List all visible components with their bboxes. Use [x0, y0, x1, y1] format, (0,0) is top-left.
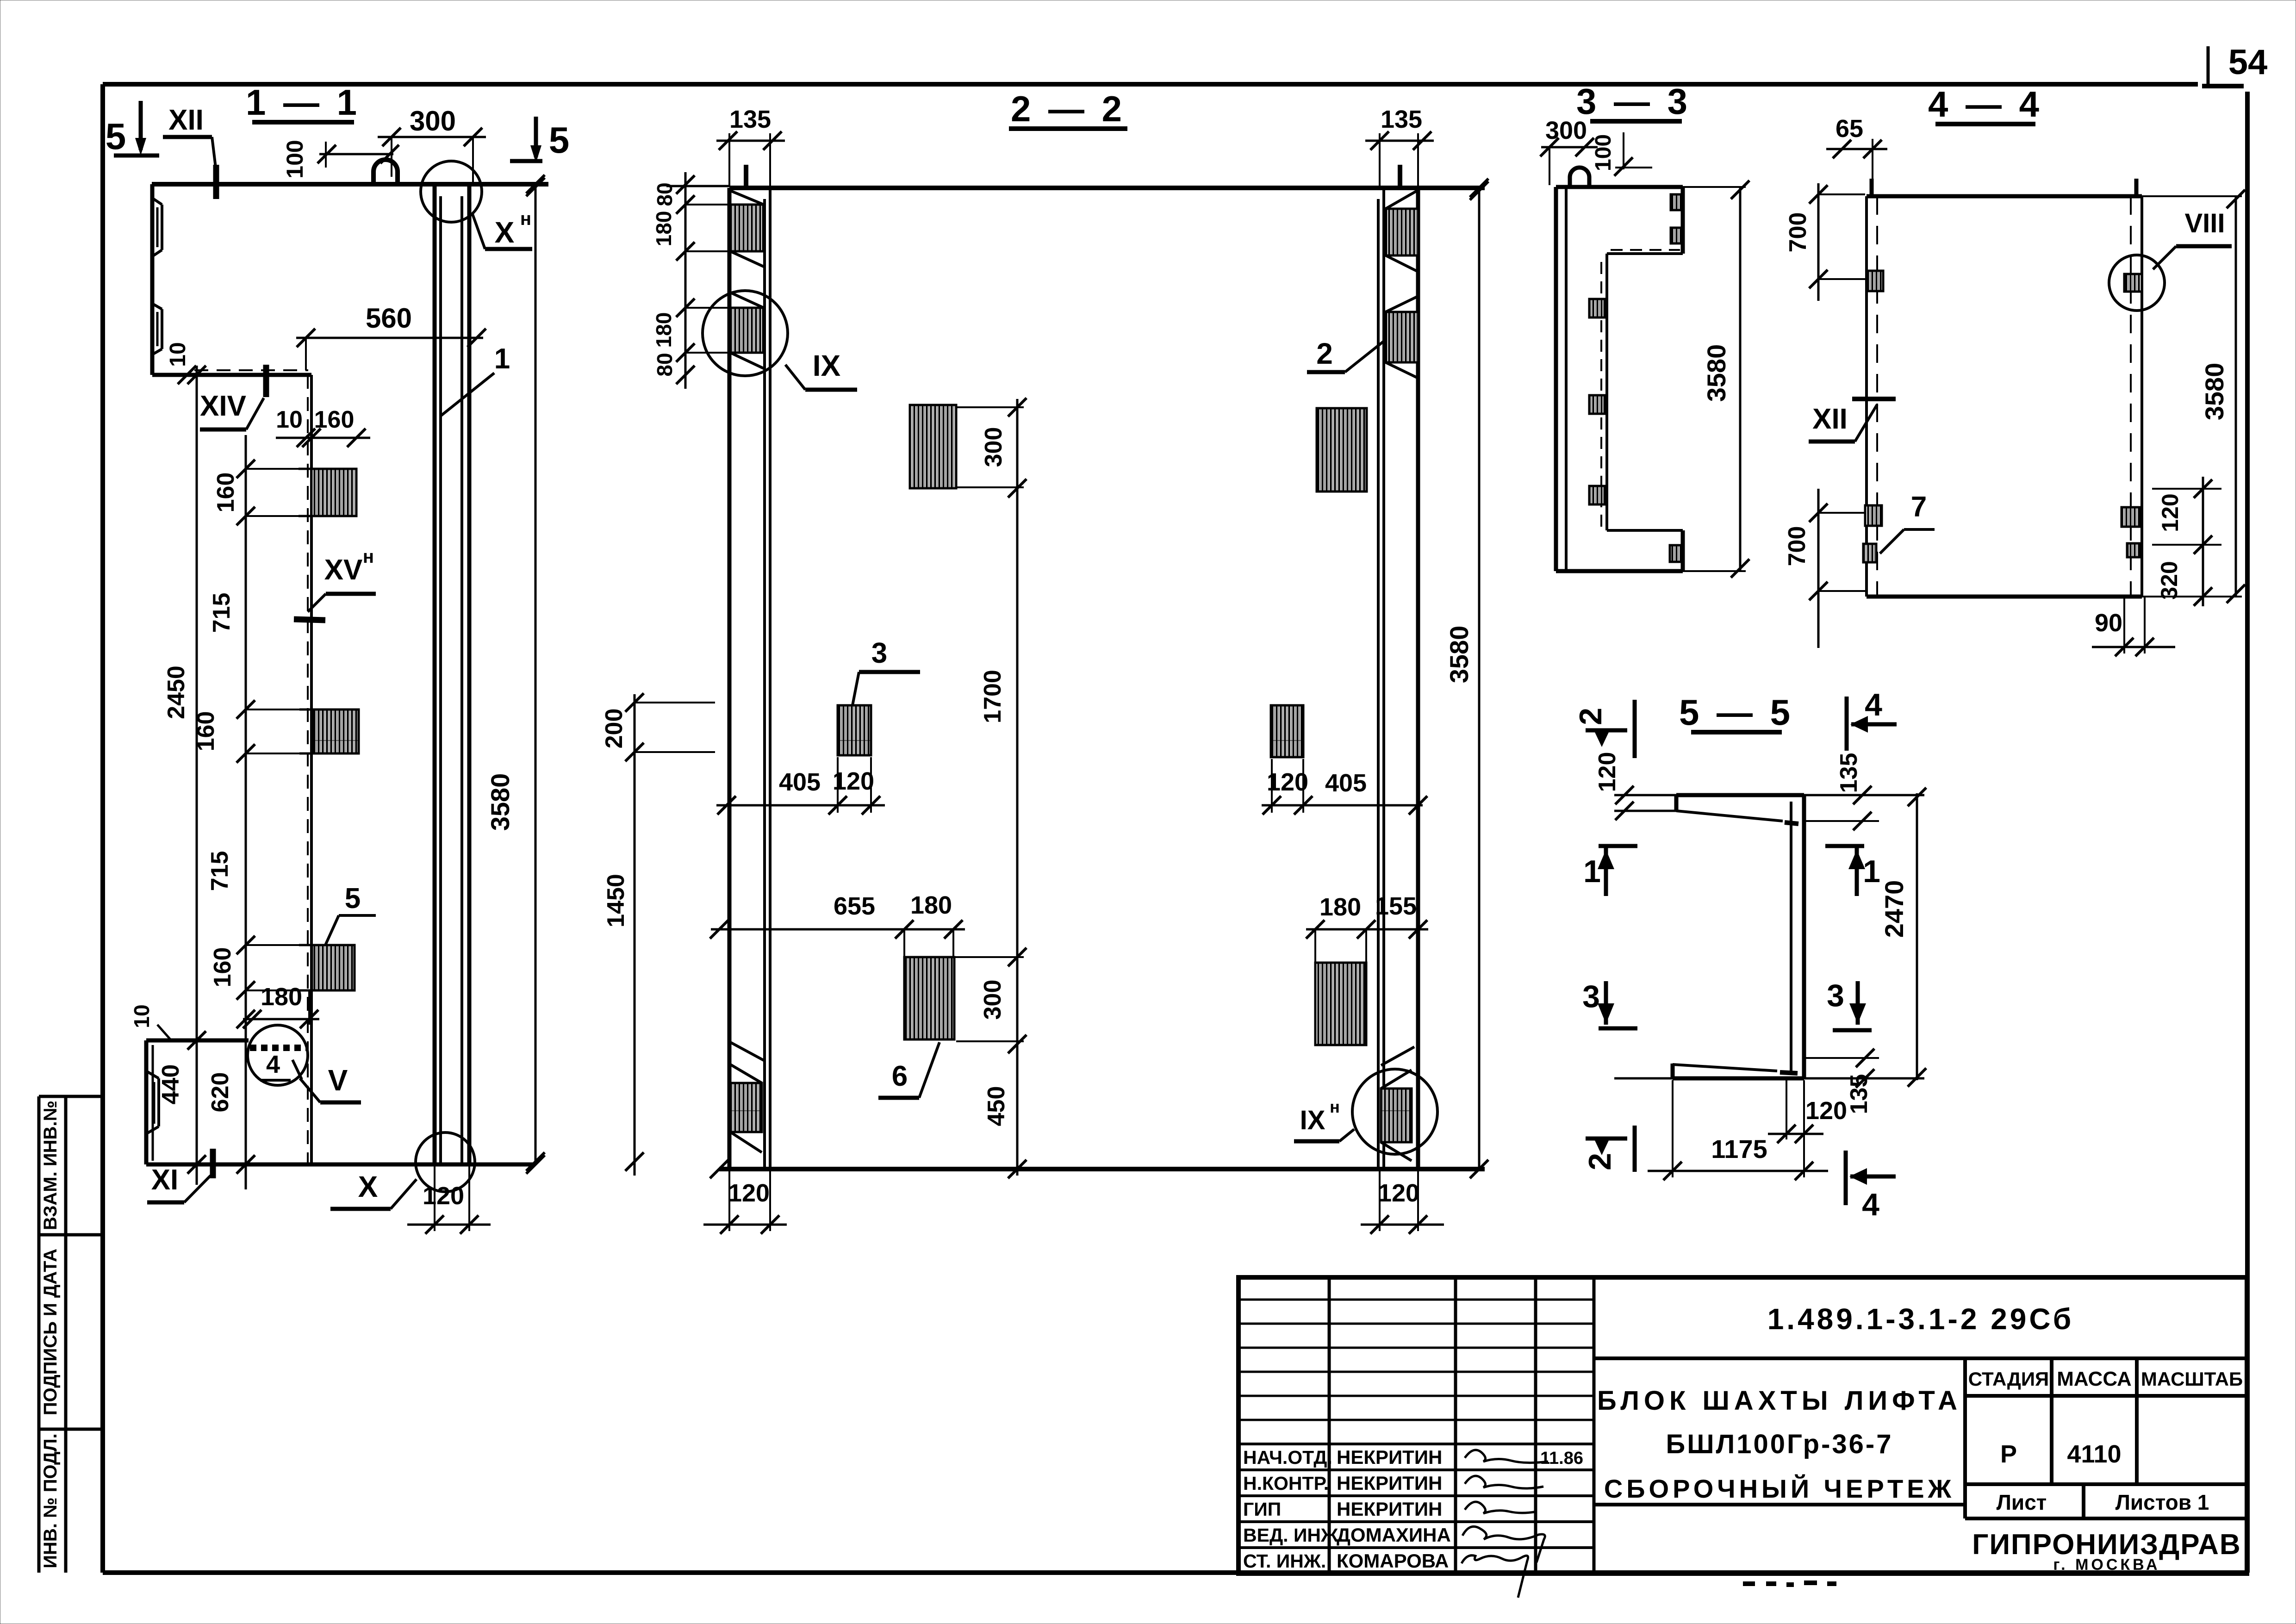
page number tick [2207, 46, 2210, 86]
svg-text:120: 120 [2157, 493, 2183, 532]
svg-text:180: 180 [1319, 893, 1361, 921]
left strip hatch block bottom [730, 1083, 762, 1132]
connector left upper [1867, 271, 1883, 291]
svg-text:120: 120 [1805, 1097, 1847, 1125]
svg-text:54: 54 [2228, 43, 2268, 82]
svg-text:1 — 1: 1 — 1 [246, 82, 361, 123]
right strip hatch block 2 [1386, 312, 1418, 362]
svg-text:н: н [520, 209, 531, 229]
svg-text:1: 1 [494, 343, 510, 375]
middle key block M1 [910, 405, 956, 488]
svg-text:120: 120 [1267, 768, 1308, 796]
svg-text:11.86: 11.86 [1540, 1449, 1583, 1468]
svg-text:120: 120 [833, 767, 874, 795]
svg-text:СБОРОЧНЫЙ ЧЕРТЕЖ: СБОРОЧНЫЙ ЧЕРТЕЖ [1604, 1474, 1955, 1503]
svg-text:405: 405 [779, 768, 821, 796]
C-profile outline (3-3) [1554, 187, 1558, 571]
section marker 5 right [534, 117, 538, 157]
svg-text:ДОМАХИНА: ДОМАХИНА [1337, 1524, 1451, 1546]
svg-text:7: 7 [1911, 491, 1927, 523]
lifting loop [373, 160, 398, 184]
svg-text:200: 200 [601, 709, 628, 749]
title block signature rows [1238, 1444, 1594, 1548]
svg-text:X: X [358, 1170, 378, 1203]
svg-text:1.489.1-3.1-2 29Сб: 1.489.1-3.1-2 29Сб [1767, 1302, 2074, 1336]
svg-text:80: 80 [653, 182, 677, 206]
svg-text:90: 90 [2095, 609, 2122, 637]
svg-text:405: 405 [1325, 769, 1367, 797]
connectors right bottom [2122, 507, 2140, 527]
lower wall line [310, 375, 313, 1164]
rebar stub right [1398, 165, 1402, 188]
svg-text:4 — 4: 4 — 4 [1928, 84, 2043, 124]
svg-text:700: 700 [1784, 526, 1811, 566]
svg-text:1450: 1450 [603, 874, 629, 927]
svg-text:БЛОК ШАХТЫ ЛИФТА: БЛОК ШАХТЫ ЛИФТА [1597, 1386, 1962, 1416]
svg-text:3: 3 [871, 637, 887, 669]
svg-text:300: 300 [1545, 117, 1587, 144]
svg-text:5: 5 [106, 116, 126, 157]
svg-text:Листов 1: Листов 1 [2116, 1490, 2209, 1514]
detail circle X-n [421, 161, 482, 222]
left strip (4-4) [1865, 196, 1868, 597]
svg-text:5: 5 [345, 883, 361, 915]
section 1-1 bottom edge [146, 1163, 533, 1167]
svg-text:180: 180 [910, 891, 952, 919]
svg-text:Р: Р [2000, 1440, 2017, 1468]
signatures [1465, 1450, 1548, 1463]
svg-text:1: 1 [1863, 854, 1880, 889]
svg-text:2450: 2450 [163, 666, 190, 719]
svg-text:XII: XII [1812, 403, 1848, 435]
svg-text:IX: IX [1300, 1105, 1325, 1135]
svg-text:560: 560 [366, 303, 412, 334]
dotted key strip in circle V [250, 1045, 306, 1051]
svg-text:3580: 3580 [1444, 626, 1474, 684]
svg-text:715: 715 [208, 593, 235, 633]
svg-text:3580: 3580 [2200, 363, 2229, 421]
svg-text:XI: XI [151, 1164, 179, 1196]
small key block S2 [1271, 705, 1303, 757]
svg-text:180: 180 [261, 983, 302, 1011]
svg-text:10: 10 [166, 342, 190, 367]
svg-text:65: 65 [1836, 115, 1863, 143]
svg-text:2 — 2: 2 — 2 [1011, 88, 1126, 129]
extension lines to 160 dim [246, 468, 305, 470]
svg-text:3580: 3580 [485, 773, 515, 831]
svg-text:300: 300 [979, 980, 1006, 1020]
svg-text:5 — 5: 5 — 5 [1679, 692, 1794, 733]
svg-text:МАСШТАБ: МАСШТАБ [2141, 1368, 2243, 1390]
dim line 3580 (3-3) [1739, 187, 1742, 571]
svg-text:ПОДПИСЬ И ДАТА: ПОДПИСЬ И ДАТА [40, 1249, 61, 1415]
section 4-4 top edge [1867, 194, 2142, 199]
keyway notch 2 [161, 309, 163, 349]
svg-text:ВЗАМ. ИНВ.№: ВЗАМ. ИНВ.№ [40, 1101, 61, 1230]
lifting loop (3-3) [1570, 168, 1589, 187]
svg-text:440: 440 [157, 1064, 184, 1105]
svg-text:2: 2 [1582, 1153, 1618, 1170]
svg-text:180: 180 [652, 211, 676, 247]
svg-text:10: 10 [130, 1004, 154, 1028]
dim line 3580 right of 1-1 [535, 184, 537, 1164]
svg-text:80: 80 [653, 353, 677, 376]
svg-text:КОМАРОВА: КОМАРОВА [1337, 1550, 1449, 1572]
left strip dim column 80/180 [684, 172, 687, 389]
svg-text:4: 4 [1862, 1187, 1879, 1222]
title block outer [1238, 1277, 2247, 1574]
svg-text:н: н [363, 547, 374, 567]
section 2-2 top edge [729, 186, 1485, 190]
detail circle VIII [2109, 255, 2165, 311]
svg-text:НЕКРИТИН: НЕКРИТИН [1337, 1498, 1442, 1520]
middle key block M2 [1317, 408, 1367, 492]
svg-text:1: 1 [1583, 854, 1601, 889]
title block columns left part [1329, 1277, 1594, 1574]
svg-text:300: 300 [410, 106, 456, 137]
svg-text:XII: XII [168, 104, 204, 136]
right strip (4-4) [2140, 196, 2143, 597]
svg-text:320: 320 [2156, 561, 2182, 599]
section 1-1 top edge [152, 182, 548, 187]
svg-text:120: 120 [728, 1179, 770, 1207]
svg-text:XIV: XIV [200, 390, 246, 422]
dim line 3580 right of 2-2 [1478, 188, 1481, 1169]
svg-text:655: 655 [834, 892, 875, 920]
svg-text:10: 10 [276, 406, 303, 433]
svg-text:450: 450 [983, 1086, 1010, 1126]
svg-text:IX: IX [813, 349, 841, 382]
svg-text:155: 155 [1375, 892, 1417, 920]
small key block S1 [838, 705, 871, 755]
svg-text:НЕКРИТИН: НЕКРИТИН [1337, 1472, 1442, 1494]
dim 2470 (5-5) [1916, 793, 1918, 1080]
detail circle X [416, 1132, 475, 1192]
svg-text:СТАДИЯ: СТАДИЯ [1968, 1368, 2049, 1390]
svg-text:300: 300 [980, 427, 1007, 467]
dim line 2450/440 column [196, 366, 198, 1185]
svg-text:2: 2 [1316, 337, 1333, 370]
dim column 300/1700/300/450 [1016, 399, 1019, 1176]
svg-text:4: 4 [266, 1051, 280, 1078]
title block right part lines [1594, 1358, 2247, 1518]
svg-text:180: 180 [652, 312, 676, 348]
svg-text:2470: 2470 [1879, 880, 1909, 938]
left wall strip [728, 188, 732, 1169]
section 4-4 bottom edge [1867, 595, 2142, 599]
svg-text:БШЛ100Гр-36-7: БШЛ100Гр-36-7 [1666, 1429, 1893, 1459]
svg-text:3580: 3580 [1702, 344, 1731, 402]
svg-text:160: 160 [212, 473, 239, 513]
detail circle V [248, 1025, 308, 1085]
detail circle IX [703, 291, 788, 376]
dim column 200/1450 [634, 694, 636, 1176]
svg-text:3: 3 [1582, 979, 1600, 1014]
svg-text:НЕКРИТИН: НЕКРИТИН [1337, 1446, 1442, 1468]
left dim column 700/700 [1817, 183, 1820, 301]
hatched key block B1 [311, 469, 356, 516]
svg-text:100: 100 [282, 140, 308, 178]
right strip hatch block 1 [1386, 209, 1418, 255]
C-profile 5-5 top flange [1676, 793, 1804, 797]
svg-text:Лист: Лист [1997, 1490, 2047, 1514]
svg-text:700: 700 [1785, 212, 1811, 253]
svg-text:1700: 1700 [979, 670, 1006, 723]
svg-text:1175: 1175 [1711, 1134, 1767, 1164]
keyway notch bottom piece [157, 1078, 160, 1126]
C-profile 5-5 web [1790, 802, 1792, 1073]
upper part bottom edge [152, 373, 311, 377]
svg-text:620: 620 [207, 1072, 234, 1113]
big key block G1 [904, 957, 954, 1039]
svg-text:МАССА: МАССА [2057, 1368, 2132, 1390]
svg-text:Н.КОНТР.: Н.КОНТР. [1243, 1473, 1329, 1494]
section 2-2 bottom edge [719, 1167, 1485, 1171]
svg-text:120: 120 [1378, 1179, 1419, 1207]
left edge upper part [150, 184, 155, 375]
bottom left piece [144, 1040, 149, 1164]
dim line 3580 (4-4) [2235, 196, 2237, 597]
svg-text:3: 3 [1827, 978, 1844, 1013]
svg-text:3 — 3: 3 — 3 [1576, 81, 1691, 122]
svg-text:ИНВ. № ПОДЛ.: ИНВ. № ПОДЛ. [40, 1433, 61, 1568]
svg-text:ВЕД. ИНЖ.: ВЕД. ИНЖ. [1243, 1524, 1343, 1546]
stamp remnants bottom edge [1743, 1583, 1836, 1585]
title block thin rows [1238, 1300, 1594, 1420]
svg-text:V: V [328, 1064, 348, 1097]
wall of section 1-1 (right shaft wall) [433, 184, 437, 1164]
right strip hatch block bottom [1381, 1089, 1412, 1142]
C-profile 5-5 bottom flange [1673, 1076, 1804, 1081]
svg-text:н: н [1330, 1097, 1340, 1116]
svg-text:XV: XV [324, 554, 363, 586]
dim line 160/715 column [245, 435, 247, 1189]
svg-text:120: 120 [423, 1182, 464, 1210]
svg-text:ГИП: ГИП [1243, 1499, 1281, 1520]
svg-text:135: 135 [729, 106, 771, 133]
right wall strip [1416, 188, 1420, 1169]
svg-text:715: 715 [206, 851, 233, 891]
svg-text:X: X [495, 216, 515, 249]
svg-text:VIII: VIII [2184, 208, 2225, 238]
keyway notch 1 [161, 205, 163, 250]
svg-text:5: 5 [549, 119, 570, 161]
left strip hatch block 2 [730, 308, 764, 353]
left strip hatch block 1 [730, 205, 764, 251]
hatched key block B3 [312, 945, 355, 990]
svg-text:135: 135 [1846, 1074, 1873, 1114]
svg-text:СТ. ИНЖ.: СТ. ИНЖ. [1243, 1550, 1326, 1572]
svg-text:2: 2 [1573, 708, 1608, 725]
svg-text:6: 6 [892, 1060, 908, 1092]
left auxiliary table [39, 1096, 103, 1573]
big key block G2 [1315, 963, 1366, 1045]
svg-text:4110: 4110 [2067, 1440, 2121, 1468]
svg-text:135: 135 [1836, 753, 1862, 793]
svg-text:100: 100 [1591, 134, 1616, 171]
hatched key block B2 [312, 709, 359, 753]
svg-text:160: 160 [209, 947, 236, 988]
rebar stub left [744, 165, 748, 188]
svg-text:120: 120 [1594, 752, 1621, 792]
connectors left bottom [1865, 505, 1882, 526]
detail circle IX-n [1352, 1069, 1437, 1154]
flange tabs (3-3) [1671, 194, 1682, 210]
svg-text:г. МОСКВА: г. МОСКВА [2053, 1556, 2160, 1574]
svg-text:НАЧ.ОТД.: НАЧ.ОТД. [1243, 1447, 1332, 1468]
svg-text:135: 135 [1381, 106, 1422, 133]
